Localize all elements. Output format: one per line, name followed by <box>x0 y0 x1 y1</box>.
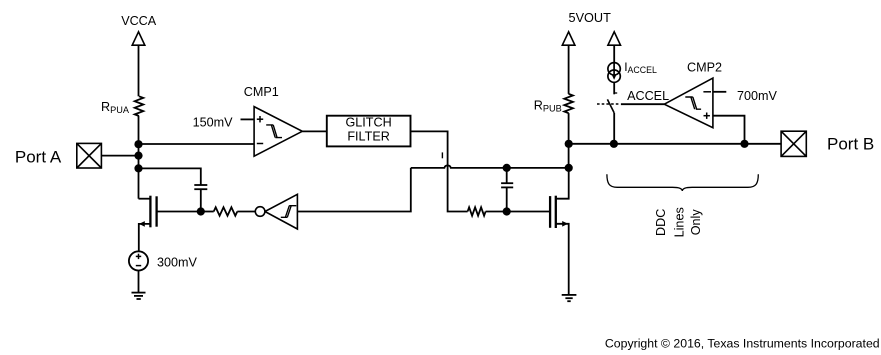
svg-text:RPUB: RPUB <box>534 99 562 114</box>
wire RPUB to node B <box>568 113 570 168</box>
op-amp CMP2 (pointing left) <box>664 78 713 128</box>
wire node A to CMP1 minus input <box>139 143 255 145</box>
power symbol 5VOUT arrow (left, RPUB) <box>562 32 575 45</box>
svg-text:700mV: 700mV <box>737 89 778 103</box>
svg-text:DDC: DDC <box>654 209 668 236</box>
wire mid bus to inverter input <box>297 168 410 212</box>
tick mark near hop <box>441 152 443 158</box>
Port B terminal box <box>781 131 806 156</box>
wire 300mV to ground <box>138 271 140 293</box>
wire CMP1 output to glitch filter <box>302 130 327 132</box>
svg-text:RPUA: RPUA <box>101 100 130 115</box>
brace DDC lines <box>607 174 758 191</box>
svg-text:FILTER: FILTER <box>347 129 389 143</box>
wire mid bus with hop over glitch wire <box>411 165 569 167</box>
wire Port B bus <box>569 143 781 145</box>
gate node junction dot (left) <box>197 207 205 215</box>
current source IACCEL <box>608 63 620 83</box>
op-amp CMP1 <box>254 107 302 157</box>
node A junction dot 3 <box>134 164 142 172</box>
wire ACCEL control to CMP2 output <box>621 103 664 105</box>
transistor M1 (left NMOS) <box>139 196 157 252</box>
switch contact tick <box>614 92 617 94</box>
capacitor C2 <box>501 183 513 187</box>
switch arm <box>607 99 614 113</box>
wire current source to switch contact <box>613 82 615 94</box>
svg-text:150mV: 150mV <box>193 116 234 130</box>
svg-text:300mV: 300mV <box>157 256 198 270</box>
wire switch to bus <box>613 113 615 144</box>
svg-text:VCCA: VCCA <box>121 14 157 28</box>
wire glitch filter output to right gate line <box>411 131 468 211</box>
wire arrow to current source <box>613 45 615 62</box>
power symbol 5VOUT arrow (right, IACCEL) <box>608 32 621 45</box>
wire CMP2 minus input to 700mV <box>713 91 726 93</box>
power symbol VCCA arrow <box>132 32 145 45</box>
resistor RPUA <box>135 96 144 116</box>
voltage source 300mV <box>129 251 148 270</box>
node A junction dot 1 <box>134 140 142 148</box>
junction dot node B / bus <box>565 140 573 148</box>
inverter U1 (schmitt, pointing left) <box>255 194 297 229</box>
wire VCCA arrow to RPUA <box>138 45 140 96</box>
svg-text:GLITCH: GLITCH <box>346 116 392 130</box>
ground (left) <box>132 293 146 299</box>
svg-text:CMP2: CMP2 <box>687 61 722 75</box>
node A junction dot 2 <box>134 152 142 160</box>
svg-text:ACCEL: ACCEL <box>627 89 669 103</box>
resistor R2 <box>214 207 238 215</box>
wire C2 to right gate line <box>506 187 508 211</box>
svg-text:IACCEL: IACCEL <box>624 60 657 75</box>
svg-text:CMP1: CMP1 <box>244 85 279 99</box>
svg-text:5VOUT: 5VOUT <box>569 11 612 25</box>
wire C2 from mid bus <box>506 168 508 183</box>
wire Port A box to node A <box>101 155 138 157</box>
junction dot mid bus / C2 <box>503 164 511 172</box>
Port A terminal box <box>77 143 102 168</box>
svg-text:Lines: Lines <box>672 207 686 237</box>
wire C1 to gate node <box>200 189 202 211</box>
wire arrow to RPUB <box>568 45 570 94</box>
junction dot mid bus / node B column <box>565 164 573 172</box>
svg-text:Copyright © 2016, Texas Instru: Copyright © 2016, Texas Instruments Inco… <box>605 336 880 350</box>
resistor R3 <box>468 207 486 215</box>
svg-text:Only: Only <box>689 209 703 236</box>
resistor RPUB <box>564 94 573 113</box>
capacitor C1 <box>194 185 207 189</box>
wire node A to capacitor C1 <box>139 168 201 185</box>
svg-text:Port A: Port A <box>15 147 62 166</box>
junction dot right gate node <box>503 207 511 215</box>
wire RPUA to node A column <box>138 116 140 199</box>
dashed control line ACCEL <box>597 103 620 105</box>
transistor M2 (right NMOS) <box>550 168 569 295</box>
junction dot CMP2 plus / bus <box>740 140 748 148</box>
wire gate node to M1 gate <box>157 211 201 213</box>
wire inverter output to R2 <box>237 211 255 213</box>
svg-text:Port B: Port B <box>827 135 874 154</box>
wire R2 to gate node <box>201 211 214 213</box>
wire CMP2 plus input to bus <box>713 116 745 144</box>
glitch filter box <box>327 116 411 147</box>
wire R3 to M2 gate <box>486 211 550 213</box>
junction dot switch / bus <box>610 140 618 148</box>
wire 150mV to CMP1 plus input <box>241 118 255 120</box>
ground (right) <box>562 295 577 301</box>
